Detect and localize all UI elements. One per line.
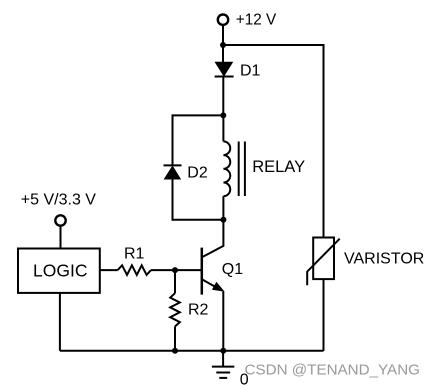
wire base node down to R2	[174, 270, 176, 293]
relay core lines	[238, 142, 240, 197]
wire D1 cathode to relay-top node	[222, 77, 224, 116]
svg-text:RELAY: RELAY	[252, 158, 305, 176]
wire D2 anode to branch bottom	[173, 179, 224, 220]
ground rail wire	[60, 350, 324, 352]
varistor RV1	[307, 238, 340, 286]
+12V terminal	[218, 15, 228, 25]
wire top rail to right	[223, 44, 324, 46]
wire R2 to ground rail	[174, 327, 176, 351]
wire top node to D1 anode	[222, 45, 224, 63]
svg-text:D1: D1	[240, 63, 261, 80]
node relay bottom junction	[220, 217, 226, 223]
+5V terminal	[55, 215, 65, 225]
resistor R1	[118, 265, 151, 275]
resistor R2	[170, 293, 180, 326]
svg-text:VARISTOR: VARISTOR	[344, 250, 424, 267]
svg-text:R1: R1	[124, 245, 145, 262]
wire collector	[203, 220, 224, 257]
wire coil bottom to relay-bottom node	[222, 196, 224, 220]
node relay top junction	[220, 112, 226, 118]
node base junction	[172, 267, 178, 273]
wire logic bottom to ground rail	[59, 293, 61, 351]
wire R1 to base node	[151, 269, 175, 271]
wire relay-top node to coil	[222, 115, 224, 141]
wire base	[175, 269, 202, 271]
wire right vertical lower (varistor to rail)	[323, 279, 325, 351]
ground symbol	[212, 351, 234, 378]
node emitter ground junction	[220, 348, 226, 354]
wire D2 branch top	[173, 115, 224, 164]
node R2 bottom junction	[172, 348, 178, 354]
svg-text:R2: R2	[188, 301, 209, 318]
wire +5V terminal to logic box	[60, 226, 62, 248]
svg-text:CSDN @TENAND_YANG: CSDN @TENAND_YANG	[245, 362, 420, 379]
diode D2	[164, 165, 182, 179]
relay coil	[223, 141, 230, 196]
svg-text:+12 V: +12 V	[236, 11, 277, 28]
svg-text:D2: D2	[187, 165, 208, 182]
wire from +12V terminal down to top node	[222, 26, 224, 46]
logic block	[18, 249, 100, 293]
svg-text:Q1: Q1	[222, 261, 243, 278]
node top junction	[220, 42, 226, 48]
wire right vertical upper (to varistor)	[323, 44, 325, 239]
svg-text:+5 V/3.3 V: +5 V/3.3 V	[21, 191, 96, 208]
transistor Q1	[202, 248, 225, 295]
svg-text:LOGIC: LOGIC	[33, 261, 87, 281]
wire logic to R1	[100, 269, 118, 271]
wire emitter down to ground rail	[222, 291, 224, 351]
diode D1	[215, 62, 234, 76]
